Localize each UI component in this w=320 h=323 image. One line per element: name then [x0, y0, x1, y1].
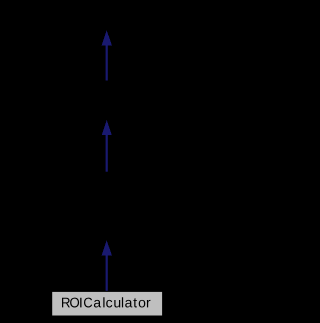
inheritance arrow 2 head — [102, 120, 112, 135]
inheritance graph canvas — [0, 0, 213, 323]
inheritance arrow 1 shaft — [106, 44, 108, 81]
node ROICalculator label — [62, 297, 150, 307]
inheritance arrow 3 head — [102, 240, 112, 255]
node ROICalculator box — [52, 292, 162, 316]
inheritance arrow 2 shaft — [106, 134, 108, 172]
inheritance arrow 1 head — [102, 30, 112, 45]
inheritance arrow 3 shaft — [106, 254, 108, 291]
